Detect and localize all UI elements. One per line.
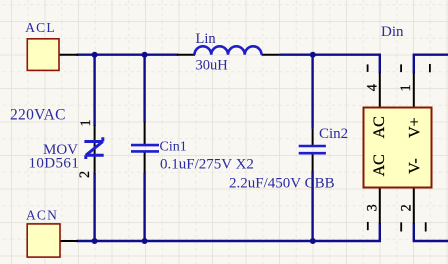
svg-text:2: 2	[398, 204, 414, 211]
capacitor Cin2 plates	[299, 146, 326, 153]
svg-text:ACL: ACL	[25, 20, 56, 35]
svg-text:3: 3	[365, 204, 381, 211]
svg-text:10D561: 10D561	[29, 156, 80, 172]
wire Cin1 branch lower	[143, 173, 145, 243]
svg-text:1: 1	[398, 84, 414, 91]
wire bottom net AC-N from ACN pad to bridge pin 3 corner	[77, 223, 380, 241]
wire MOV branch upper	[93, 54, 95, 127]
junction node bottom at Cin1	[142, 238, 148, 244]
pin 3 of bridge Din	[379, 188, 381, 224]
svg-text:0.1uF/275V X2: 0.1uF/275V X2	[160, 157, 254, 173]
svg-text:V-: V-	[407, 158, 424, 173]
pin stub ACL pad	[60, 54, 79, 56]
svg-text:2: 2	[77, 171, 93, 178]
svg-text:Lin: Lin	[196, 31, 217, 47]
svg-text:V+: V+	[407, 117, 424, 138]
pin 4 of bridge Din	[379, 73, 381, 108]
pin 2 of inductor Lin	[262, 54, 280, 56]
wire Cin2 branch upper	[311, 54, 313, 129]
pin 2 of capacitor Cin1	[144, 152, 146, 173]
svg-text:AC: AC	[371, 116, 388, 138]
tick mark above pin 4	[367, 64, 369, 72]
capacitor Cin1 plates	[131, 145, 159, 151]
wire from bridge pin 2 corner to right edge	[414, 223, 448, 241]
junction node bottom at MOV	[92, 238, 98, 244]
svg-text:220VAC: 220VAC	[10, 107, 66, 124]
pin 1 of inductor Lin	[177, 54, 195, 56]
tick mark bottom right	[425, 222, 427, 231]
wire MOV branch lower	[93, 173, 95, 242]
wire Cin1 branch upper	[143, 54, 145, 123]
svg-text:Cin2: Cin2	[319, 126, 348, 142]
wire top net AC-L from ACL pad to inductor	[77, 54, 179, 56]
svg-text:AC: AC	[371, 154, 388, 176]
pin 1 of bridge Din	[413, 73, 415, 108]
connector pad ACL	[27, 39, 59, 71]
junction node top at Cin1	[142, 52, 148, 58]
inductor Lin coil	[195, 46, 262, 54]
junction node top at MOV	[92, 52, 98, 58]
svg-text:30uH: 30uH	[196, 57, 229, 73]
svg-text:2.2uF/450V CBB: 2.2uF/450V CBB	[229, 176, 335, 192]
junction node bottom at Cin2	[310, 238, 316, 244]
svg-text:4: 4	[365, 84, 381, 91]
svg-text:1: 1	[78, 119, 94, 126]
tick mark below pin 3	[367, 222, 369, 230]
junction node top at Cin2	[310, 52, 316, 58]
pin 2 of capacitor Cin2	[312, 154, 314, 171]
pin 1 of capacitor Cin2	[312, 129, 314, 145]
pin stub ACN pad	[60, 240, 78, 242]
wire from inductor to bridge pin 4 corner	[280, 55, 380, 73]
pin 1 of capacitor Cin1	[144, 122, 146, 144]
svg-text:ACN: ACN	[26, 208, 58, 223]
svg-text:Din: Din	[381, 24, 404, 40]
tick mark top right	[429, 64, 431, 72]
pin 2 of bridge Din	[413, 188, 415, 224]
wire Cin2 branch lower	[311, 171, 313, 242]
bridge rectifier Din body	[364, 108, 432, 188]
tick mark above pin 1	[400, 64, 402, 72]
varistor MOV symbol Z	[84, 137, 103, 159]
svg-text:Cin1: Cin1	[160, 140, 187, 155]
pins of varistor MOV	[94, 125, 96, 173]
connector pad ACN	[27, 224, 60, 257]
tick mark below pin 2	[400, 222, 402, 231]
wire from bridge pin 1 corner to right edge	[414, 55, 448, 73]
